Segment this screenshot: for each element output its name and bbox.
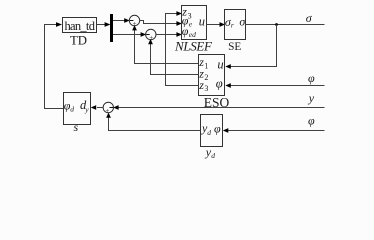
svg-text:φ: φ — [308, 113, 315, 127]
block han_td (TD) — [63, 18, 97, 33]
summer S3 — [103, 102, 113, 112]
svg-text:y: y — [84, 105, 89, 114]
node junction on sigma line — [275, 23, 278, 26]
block SE — [225, 10, 246, 40]
svg-text:φ: φ — [214, 122, 221, 136]
wire SE output sigma line — [246, 24, 325, 26]
wire bar to summer S2 — [113, 34, 141, 36]
svg-text:r: r — [231, 21, 234, 30]
svg-text:d: d — [70, 105, 74, 114]
svg-text:u: u — [199, 15, 205, 29]
wire y measurement input to summer S3 — [118, 107, 325, 109]
svg-text:s: s — [74, 120, 79, 134]
wire bar to summer S1 — [113, 20, 125, 22]
svg-text:SE: SE — [228, 41, 241, 53]
splitter bar — [110, 14, 113, 42]
block ESO — [199, 55, 225, 96]
block NLSEF — [182, 6, 207, 40]
svg-text:u: u — [217, 57, 223, 71]
svg-text:d: d — [211, 151, 215, 160]
wire feedback trunk from s block to han_td input — [45, 25, 64, 109]
wire S1 output to NLSEF phi_e input (with jog) — [140, 21, 178, 24]
svg-text:φ: φ — [216, 76, 223, 90]
wire sigma feedback to ESO u input — [230, 25, 277, 67]
block y_d — [201, 115, 223, 147]
wire han_td output to splitter bar — [97, 24, 106, 26]
svg-text:1: 1 — [204, 61, 208, 70]
svg-text:e: e — [189, 19, 193, 28]
wire ESO z2 feedback to summer S2 — [151, 44, 199, 75]
wire S3 output to s block — [97, 107, 103, 109]
svg-text:σ: σ — [306, 11, 313, 25]
wire ESO z3 feedback to NLSEF z3 input — [166, 14, 199, 86]
wire NLSEF u output to SE — [207, 24, 221, 26]
svg-text:han_td: han_td — [64, 19, 95, 33]
svg-text:z: z — [198, 78, 204, 92]
summer S1 — [129, 15, 139, 25]
wire ESO z1 feedback to summer S1 — [135, 30, 199, 64]
svg-text:φ: φ — [182, 24, 189, 38]
wire y_d output to summer S3 — [109, 117, 201, 130]
svg-text:ed: ed — [189, 30, 196, 39]
wire S2 output to NLSEF phi_ed input — [156, 34, 177, 36]
svg-text:φ: φ — [308, 71, 315, 85]
wire phi measurement input to ESO — [230, 85, 325, 87]
svg-text:TD: TD — [70, 34, 87, 48]
svg-text:2: 2 — [204, 73, 208, 82]
wire phi input to y_d block — [228, 130, 325, 132]
svg-text:NLSEF: NLSEF — [174, 39, 213, 54]
svg-text:3: 3 — [204, 84, 208, 93]
svg-text:d: d — [207, 128, 211, 137]
summer S2 — [146, 29, 156, 39]
svg-text:y: y — [308, 91, 315, 105]
block s (phi_d, d_y) — [64, 93, 91, 125]
